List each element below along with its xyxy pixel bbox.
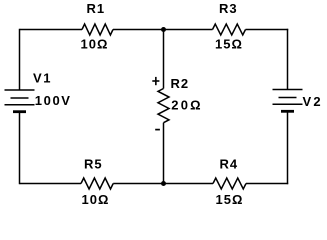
battery V2 plate 2 (medium) [279, 97, 297, 99]
battery V1 plate 2 (medium) [11, 97, 29, 99]
resistor R3 [213, 24, 246, 35]
battery V1 plate 4 (short thick, negative) [13, 110, 26, 113]
wire top-middle (R1 to R3 through node A) [113, 29, 213, 31]
resistor R4 [213, 178, 246, 189]
svg-text:10Ω: 10Ω [82, 192, 110, 207]
polarity + mark for R2 [152, 77, 159, 85]
svg-text:R2: R2 [171, 76, 190, 91]
wire bottom-left (V1 to R5) [20, 183, 82, 185]
svg-text:R4: R4 [220, 157, 239, 172]
svg-text:R1: R1 [87, 1, 106, 16]
svg-text:V2: V2 [303, 94, 323, 109]
svg-text:10Ω: 10Ω [81, 36, 109, 51]
battery V2 plate 1 (long) [273, 89, 303, 91]
wire right rail lower (V2 to bottom wire) [287, 111, 289, 184]
svg-text:100V: 100V [35, 93, 72, 108]
wire bottom-middle (R5 to R4 through node B) [113, 183, 213, 185]
wire top-left (node between V1+ and R1) [20, 29, 83, 31]
wire bottom-right (R4 to V2) [246, 183, 288, 185]
wire left rail lower (V1 bottom to bottom wire) [19, 112, 21, 185]
svg-text:15Ω: 15Ω [216, 192, 244, 207]
wire R2 branch upper (node A to R2) [163, 30, 165, 89]
battery V2 plate 3 (long) [273, 103, 303, 105]
node A junction dot (top) [161, 27, 166, 32]
battery V1 plate 1 (long) [5, 89, 35, 91]
battery V1 plate 3 (long) [5, 104, 35, 106]
svg-text:R5: R5 [84, 157, 103, 172]
resistor R2 (vertical) [158, 89, 169, 123]
wire right rail upper (top wire to V2) [287, 29, 289, 90]
polarity - mark for R2 [155, 129, 160, 131]
node B junction dot (bottom) [161, 181, 166, 186]
svg-text:15Ω: 15Ω [215, 36, 243, 51]
svg-text:R3: R3 [219, 1, 238, 16]
svg-text:V1: V1 [33, 71, 52, 86]
resistor R1 [82, 24, 113, 35]
battery V2 plate 4 (short thick, negative) [281, 110, 294, 113]
wire R2 branch lower (R2 to node B) [163, 123, 165, 184]
wire left rail upper (to V1 top plate) [19, 29, 21, 90]
wire top-right (R3 to V2) [246, 29, 289, 31]
resistor R5 [81, 178, 113, 189]
svg-text:20Ω: 20Ω [171, 98, 202, 113]
